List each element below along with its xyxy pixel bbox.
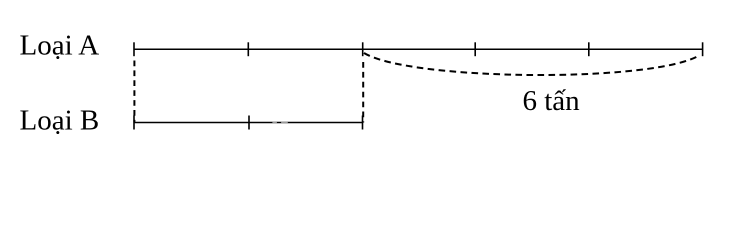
- tick A1: [133, 42, 135, 56]
- dashed vertical left: [133, 61, 135, 123]
- tick A2: [247, 42, 249, 56]
- bar line B: [134, 122, 363, 124]
- tick A4: [474, 42, 476, 56]
- tick A5: [588, 42, 590, 56]
- watermark gap 1 on line B: [272, 122, 277, 124]
- dashed vertical right: [362, 62, 364, 123]
- svg-text:Loại B: Loại B: [20, 105, 100, 137]
- dashed brace curve 6 tan: [364, 53, 700, 75]
- bar line A: [134, 48, 703, 50]
- tick B2: [248, 116, 250, 130]
- svg-text:Loại A: Loại A: [20, 30, 100, 62]
- tick B1: [133, 116, 135, 130]
- svg-text:6 tấn: 6 tấn: [523, 85, 581, 117]
- tick B3: [362, 116, 364, 130]
- watermark gap 2 on line B: [281, 122, 288, 124]
- tick A6: [702, 42, 704, 56]
- tick A3: [362, 42, 364, 56]
